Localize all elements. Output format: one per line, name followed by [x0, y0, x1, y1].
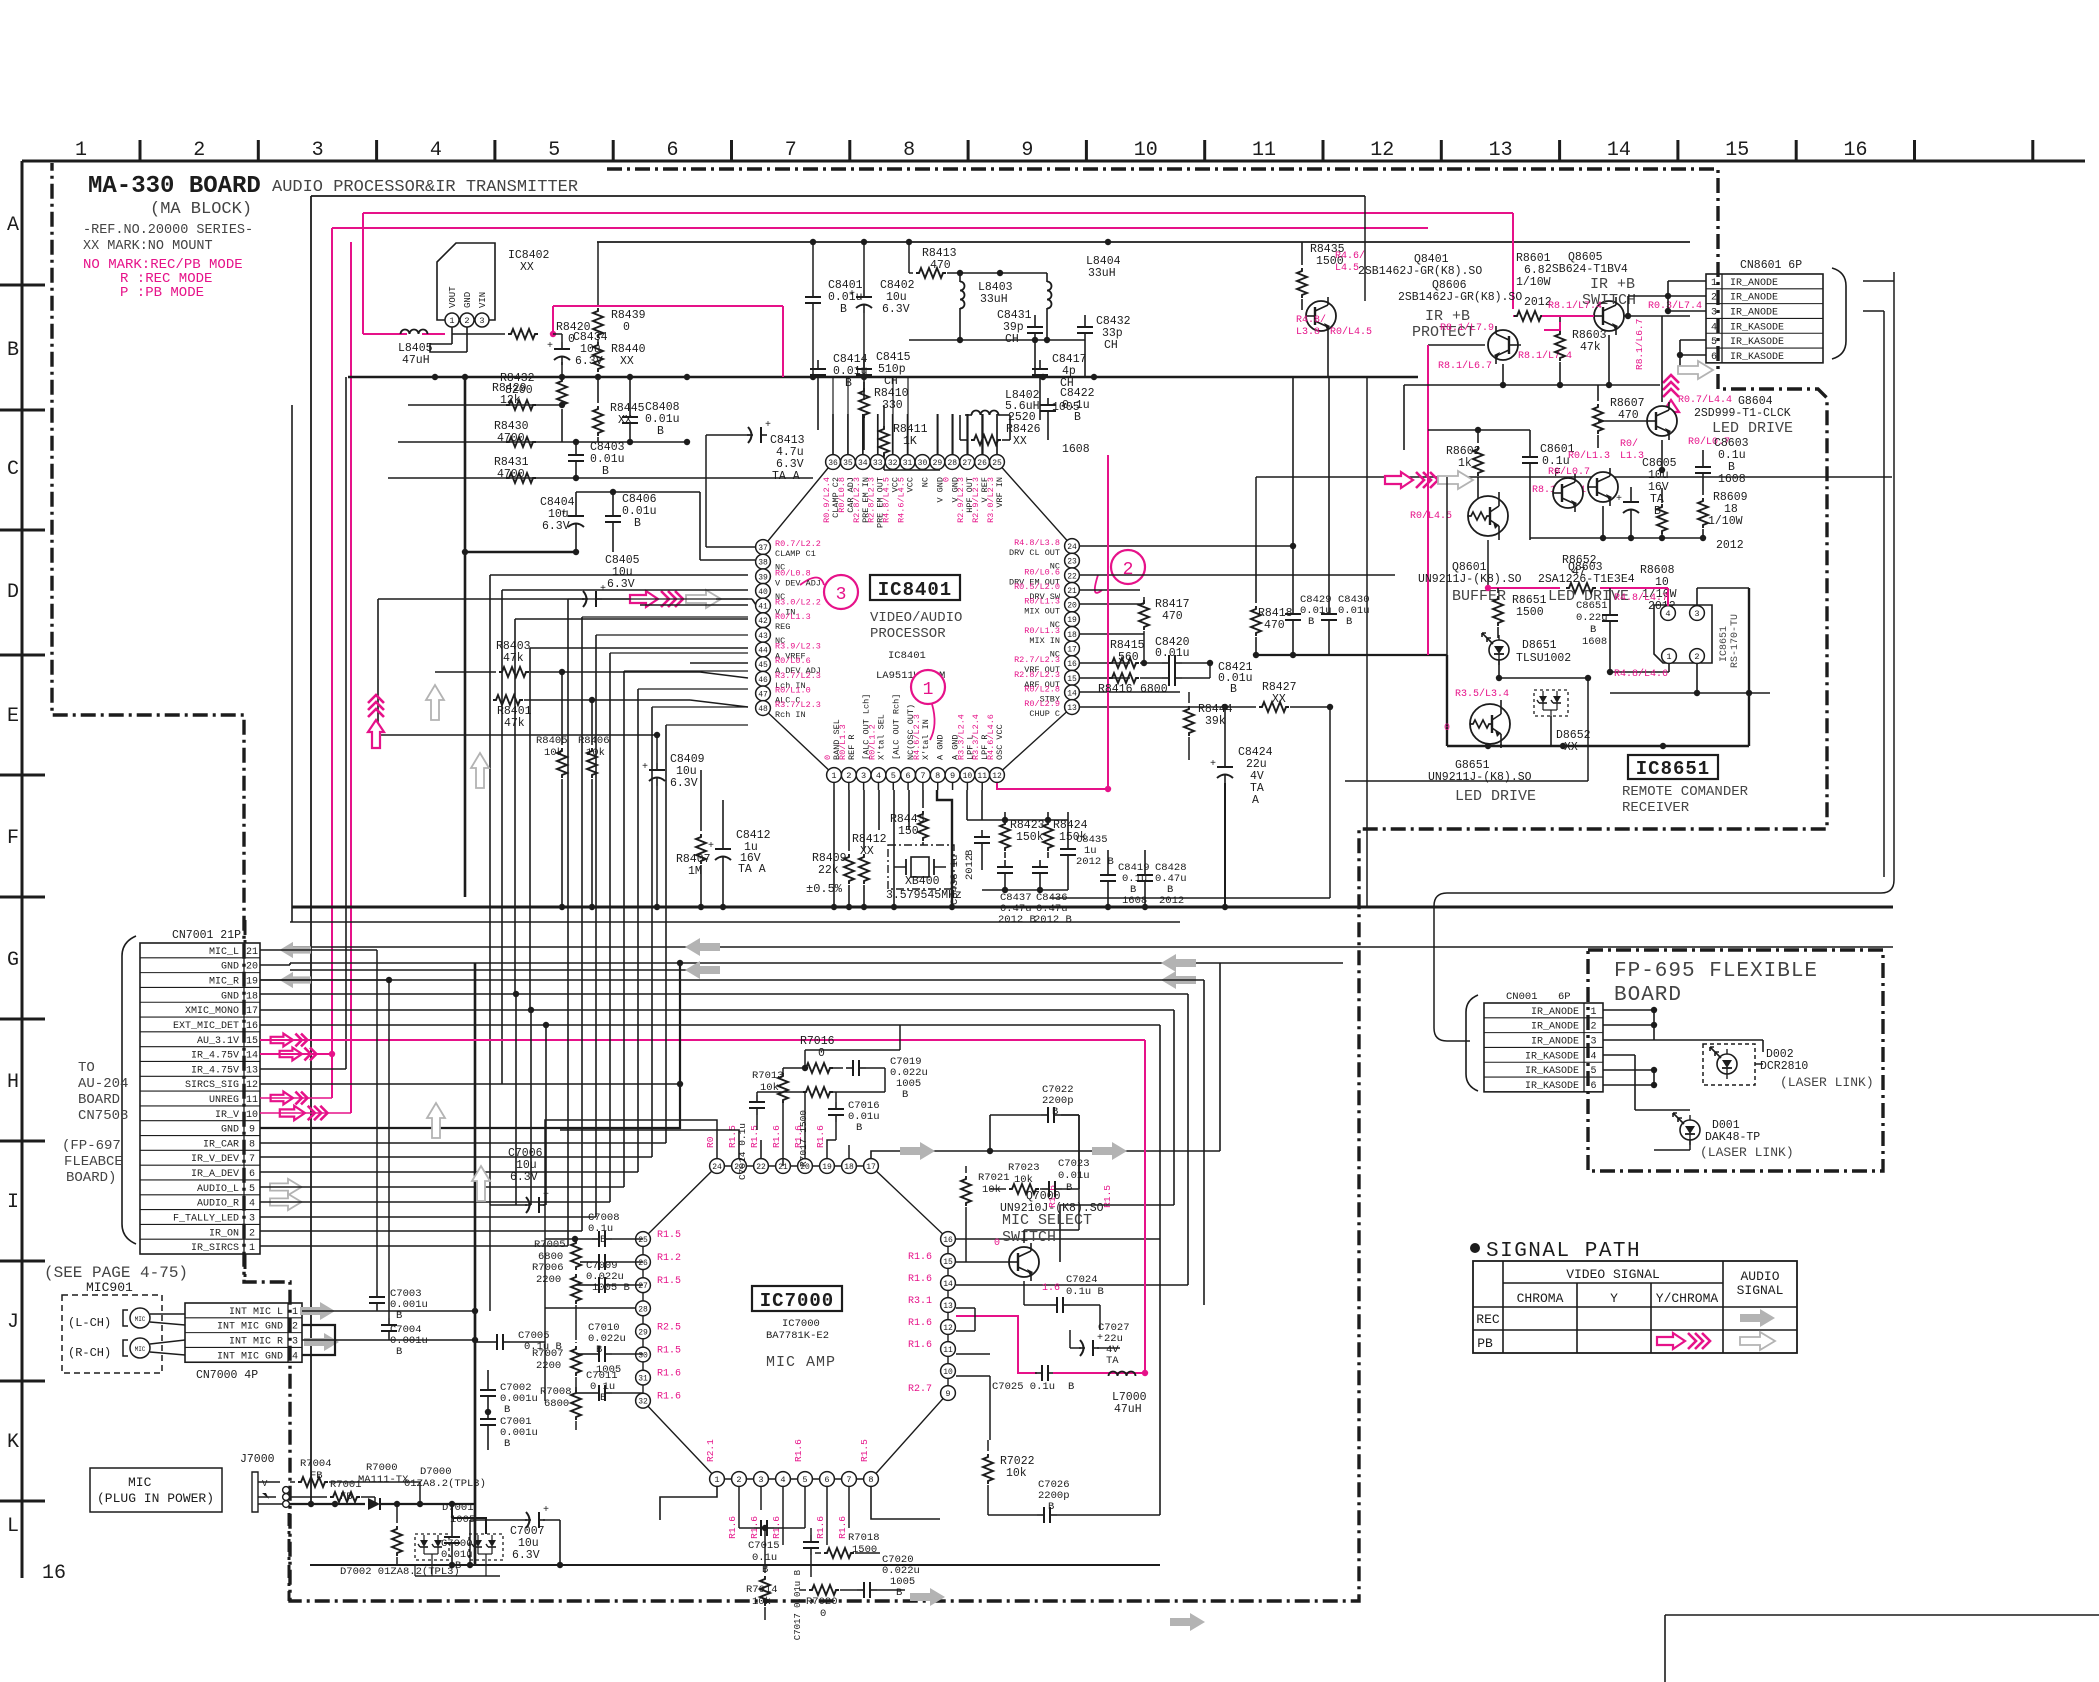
svg-text:INT MIC GND: INT MIC GND: [217, 1351, 283, 1362]
svg-text:30: 30: [918, 459, 928, 468]
wire buffer/led drive nets: [1446, 477, 1448, 538]
boxed label IC8651: [1628, 755, 1718, 779]
svg-text:R0/L4.5: R0/L4.5: [1330, 326, 1372, 338]
IC8401 pin 31: [900, 455, 915, 470]
svg-text:B: B: [600, 1392, 606, 1404]
ruler column tick: [1913, 140, 1916, 161]
capacitor C7001: [487, 1412, 489, 1419]
magenta wire IR_4.75V y1054: [260, 1053, 332, 1055]
svg-text:(PLUG IN POWER): (PLUG IN POWER): [97, 1491, 214, 1506]
svg-text:IC7000: IC7000: [760, 1290, 834, 1312]
svg-text:R1.2: R1.2: [657, 1253, 681, 1264]
op-amp IC8651 receiver chip: [1654, 605, 1712, 663]
wires IC8401 left pin stubs: [699, 492, 701, 560]
magenta wire UNREG y1098: [260, 1097, 332, 1099]
svg-text:22k: 22k: [818, 864, 839, 877]
capacitor C8408: [629, 410, 631, 417]
svg-text:GND: GND: [463, 292, 473, 308]
svg-text:DCR2810: DCR2810: [1760, 1060, 1808, 1073]
svg-text:R4.8/L4.6: R4.8/L4.6: [1614, 668, 1668, 680]
capacitor C8437: [1004, 860, 1006, 867]
svg-text:SWITCH: SWITCH: [1002, 1229, 1056, 1246]
svg-text:R1.6: R1.6: [908, 1252, 932, 1263]
svg-text:21: 21: [246, 947, 258, 958]
svg-text:47k: 47k: [504, 717, 525, 730]
svg-text:PB: PB: [1477, 1336, 1493, 1351]
svg-text:B: B: [1048, 1501, 1054, 1513]
svg-text:28: 28: [947, 459, 957, 468]
svg-text:R0: R0: [705, 1136, 716, 1148]
svg-text:INT MIC L: INT MIC L: [229, 1307, 283, 1318]
IC7000 pin 4: [776, 1472, 791, 1487]
svg-text:10k: 10k: [982, 1184, 1001, 1196]
resistor R7022: [983, 1454, 993, 1484]
svg-text:1608: 1608: [1718, 473, 1746, 486]
svg-text:IC8401: IC8401: [878, 579, 952, 601]
svg-text:6.3V: 6.3V: [607, 578, 635, 591]
svg-text:MIC: MIC: [128, 1475, 152, 1490]
wire left bus into area: [1345, 654, 1447, 656]
svg-text:22: 22: [756, 1163, 766, 1172]
ruler row tick: [0, 1140, 45, 1143]
resistor R8430: [506, 437, 536, 447]
svg-text:25: 25: [992, 459, 1002, 468]
regulator IC8402 body: [437, 243, 495, 320]
wire magenta vertical x351: [350, 242, 352, 1113]
svg-text:R1.5: R1.5: [657, 1230, 681, 1241]
wires IC8401 right pin stubs: [1080, 545, 1293, 547]
svg-text:C7023: C7023: [1058, 1158, 1090, 1170]
wires top cluster: [757, 1091, 795, 1093]
zener pair D7002b: [469, 1534, 503, 1560]
capacitor C8603: [1702, 460, 1704, 467]
svg-text:A: A: [7, 214, 19, 237]
wire pin10/11 nets: [967, 819, 1068, 821]
svg-text:REF R: REF R: [847, 734, 857, 760]
svg-text:IR_ANODE: IR_ANODE: [1531, 1007, 1579, 1018]
svg-text:3: 3: [1711, 308, 1717, 319]
magenta wire to L7000: [1053, 1372, 1145, 1374]
capacitor C8403: [575, 448, 577, 455]
IC7000 pin 12: [941, 1320, 956, 1335]
capacitor C8435: [1067, 842, 1069, 849]
crystal XB400: [888, 845, 954, 889]
IC7000 pin 29: [636, 1324, 651, 1339]
svg-text:2: 2: [292, 1322, 298, 1333]
svg-text:17: 17: [1067, 645, 1077, 654]
return buses under IC8401: [290, 921, 1180, 923]
svg-text:470: 470: [930, 259, 951, 272]
IC8401 pin 21: [1065, 583, 1080, 598]
svg-text:R3.3/L2.4: R3.3/L2.4: [956, 714, 966, 760]
svg-text:MIC_R: MIC_R: [209, 977, 239, 988]
IC8401 pin 11: [975, 768, 990, 783]
svg-text:UN9211J-(K8).SO: UN9211J-(K8).SO: [1418, 573, 1522, 586]
svg-text:V DEV ADJ: V DEV ADJ: [775, 578, 821, 588]
IC7000 pin 32: [636, 1393, 651, 1408]
resistor R8435: [1297, 268, 1307, 298]
svg-text:3: 3: [312, 139, 324, 162]
gray arrows at MIC rows: [280, 942, 312, 958]
wire GND row 9: [260, 963, 680, 1128]
svg-text:IR_ON: IR_ON: [209, 1228, 239, 1239]
capacitor C8601: [1529, 450, 1531, 457]
ruler column tick: [1440, 140, 1443, 161]
IC8401 pin 1: [827, 768, 842, 783]
svg-text:L: L: [7, 1515, 19, 1538]
gray up arrow x436 low: [427, 1103, 445, 1138]
svg-text:3: 3: [479, 316, 484, 326]
resistor R7023: [1009, 1184, 1039, 1194]
svg-text:46: 46: [758, 676, 768, 685]
op-amp IC8401 chip outline: [763, 462, 1072, 775]
resistor R7021: [961, 1176, 971, 1206]
svg-text:R8.1/L6.7: R8.1/L6.7: [1438, 360, 1492, 372]
svg-text:+: +: [708, 841, 714, 852]
svg-text:MIX OUT: MIX OUT: [1024, 607, 1060, 617]
svg-text:150k: 150k: [1016, 831, 1044, 844]
svg-text:28: 28: [638, 1305, 648, 1314]
capacitor C8424: [1224, 760, 1226, 767]
svg-text:J: J: [7, 1311, 19, 1334]
svg-text:+: +: [1616, 494, 1622, 505]
magenta circled 2: [1111, 550, 1145, 584]
svg-text:CN7000 4P: CN7000 4P: [196, 1369, 258, 1382]
svg-text:R7000: R7000: [366, 1462, 398, 1474]
svg-text:(LASER LINK): (LASER LINK): [1700, 1145, 1794, 1160]
svg-text:17: 17: [246, 1006, 258, 1017]
svg-text:12: 12: [1370, 139, 1394, 162]
wire Q8401 collector: [1327, 335, 1329, 377]
svg-text:R1.6: R1.6: [657, 1369, 681, 1380]
svg-text:1005: 1005: [896, 1078, 921, 1090]
svg-text:CN7001 21P: CN7001 21P: [172, 929, 241, 942]
gray arrow bottom C7026: [910, 1588, 945, 1606]
ruler column tick: [1322, 140, 1325, 161]
magenta circled 3: [824, 575, 858, 609]
IC7000 pin 22: [754, 1159, 769, 1174]
resistor R8407: [696, 834, 706, 864]
svg-text:R0.7/L4.4: R0.7/L4.4: [1678, 394, 1732, 406]
svg-text:1608: 1608: [1062, 443, 1090, 456]
capacitor C7014: [756, 1095, 758, 1102]
capacitor C8422: [1047, 398, 1049, 405]
svg-text:REG: REG: [775, 622, 790, 632]
capacitor C8405 on y599: [378, 598, 584, 600]
IC8401 pin 39: [756, 569, 771, 584]
svg-text:36: 36: [828, 459, 838, 468]
svg-text:4: 4: [1590, 1051, 1596, 1062]
svg-text:0: 0: [823, 755, 833, 760]
svg-text:3: 3: [292, 1337, 298, 1348]
ruler column tick: [257, 140, 260, 161]
svg-text:13: 13: [1489, 139, 1513, 162]
wire bus y442 R8430: [398, 441, 687, 443]
magenta path pin13 R3.1: [956, 1316, 1037, 1373]
svg-text:13: 13: [1067, 704, 1077, 713]
svg-text:33: 33: [873, 459, 883, 468]
svg-text:6.3V: 6.3V: [670, 777, 698, 790]
wire bus y405 R8429: [408, 404, 562, 406]
svg-text:B: B: [1590, 624, 1596, 636]
svg-text:DRV CL OUT: DRV CL OUT: [1009, 548, 1060, 558]
svg-text:IR_ANODE: IR_ANODE: [1730, 278, 1778, 289]
svg-text:R7014: R7014: [746, 1584, 778, 1596]
resistor R7006: [571, 1274, 581, 1304]
svg-text:R3.0/L2.2: R3.0/L2.2: [775, 598, 821, 608]
svg-text:INT MIC R: INT MIC R: [229, 1337, 283, 1348]
resistor R7001 FB: [330, 1492, 360, 1502]
gray arrow into V IN: [686, 590, 721, 608]
IC8401 pin 24: [1065, 539, 1080, 554]
svg-text:RECEIVER: RECEIVER: [1622, 800, 1690, 816]
svg-text:R0/L1.3: R0/L1.3: [775, 612, 811, 622]
wire x378 vertical: [377, 599, 379, 735]
svg-text:R2.9/L2.3: R2.9/L2.3: [956, 477, 966, 523]
svg-text:B: B: [964, 850, 976, 856]
svg-text:IC8401: IC8401: [888, 650, 926, 662]
svg-text:B: B: [504, 1404, 510, 1416]
svg-text:±0.5%: ±0.5%: [806, 882, 843, 896]
svg-text:IR_ANODE: IR_ANODE: [1531, 1037, 1579, 1048]
svg-text:2SB624-T1BV4: 2SB624-T1BV4: [1545, 263, 1628, 276]
svg-text:6.3V: 6.3V: [882, 303, 910, 316]
svg-text:R1.6: R1.6: [908, 1340, 932, 1351]
ruler column tick: [967, 140, 970, 161]
magenta up arrow near CN8601: [1663, 400, 1679, 428]
ruler row tick: [0, 896, 45, 899]
magenta wire y588: [1488, 587, 1560, 589]
wire C8413 electrolytic: [706, 434, 750, 436]
svg-text:1/10W: 1/10W: [1708, 515, 1743, 528]
resistor R8424: [1043, 821, 1053, 851]
svg-text:2: 2: [736, 1475, 741, 1485]
dash-dot stub above CN7001: [244, 920, 247, 943]
svg-text:R7023: R7023: [1008, 1162, 1040, 1174]
wire D8651 to Q8651: [1498, 660, 1500, 678]
capacitor C8419: [1107, 868, 1109, 875]
svg-text:R8405: R8405: [536, 735, 568, 747]
svg-text:6: 6: [906, 771, 911, 781]
svg-text:R4.6/L2.3: R4.6/L2.3: [912, 714, 922, 760]
capacitor C7007: [525, 1519, 531, 1521]
capacitor C7022: [1041, 1114, 1048, 1116]
svg-text:CHUP C: CHUP C: [1029, 709, 1060, 719]
wire x1160 down: [1159, 1239, 1161, 1515]
svg-text:R0/L1.2: R0/L1.2: [867, 724, 877, 760]
svg-text:IR_4.75V: IR_4.75V: [191, 1051, 239, 1062]
svg-text:B: B: [902, 1089, 908, 1101]
svg-text:6: 6: [1590, 1081, 1596, 1092]
svg-text:2: 2: [846, 771, 851, 781]
svg-text:38: 38: [758, 559, 768, 568]
svg-text:6.3V: 6.3V: [575, 355, 603, 368]
svg-text:R0/: R0/: [1620, 438, 1638, 450]
magenta vertical x1145 down: [1144, 1040, 1146, 1373]
IC8402 pin 1: [445, 313, 459, 327]
svg-text:B: B: [596, 1344, 602, 1356]
svg-text:AU-204: AU-204: [78, 1076, 128, 1092]
svg-text:32: 32: [638, 1398, 648, 1407]
svg-text:TA: TA: [1106, 1355, 1119, 1367]
svg-text:18: 18: [246, 991, 258, 1002]
svg-text:R7006: R7006: [532, 1262, 564, 1274]
svg-text:IC8651: IC8651: [1719, 626, 1730, 662]
svg-text:CN001: CN001: [1506, 991, 1538, 1003]
wire vertical x465 thick: [464, 377, 467, 897]
svg-text:R2.8/L2.3: R2.8/L2.3: [852, 477, 862, 523]
IC8401 pin 16: [1065, 656, 1080, 671]
svg-text:R0/L2.8: R0/L2.8: [1024, 684, 1060, 694]
svg-text:VIDEO/AUDIO: VIDEO/AUDIO: [870, 610, 962, 626]
svg-text:R1.6: R1.6: [815, 1516, 826, 1539]
resistor R7013: [778, 1073, 788, 1103]
svg-text:XX: XX: [860, 845, 874, 858]
IC8401 pin 46: [756, 671, 771, 686]
svg-text:R0/L1.3: R0/L1.3: [1024, 597, 1060, 607]
svg-text:4: 4: [1665, 609, 1670, 619]
ruler column tick: [1558, 140, 1561, 161]
IC8401 pin 45: [756, 657, 771, 672]
svg-text:CH: CH: [1104, 339, 1118, 352]
svg-text:8: 8: [249, 1139, 255, 1150]
svg-text:D7001: D7001: [442, 1502, 474, 1514]
svg-text:MIC: MIC: [135, 1316, 146, 1323]
svg-text:R1.6: R1.6: [657, 1392, 681, 1403]
svg-text:R0/L0.7: R0/L0.7: [1548, 466, 1590, 478]
wire pre-emphasis net: [909, 339, 1085, 341]
transistor Q8651 LED DRIVE: [1470, 704, 1510, 744]
svg-text:42: 42: [758, 617, 768, 626]
capacitor C7015: [754, 1527, 761, 1529]
svg-text:R3.7/L2.3: R3.7/L2.3: [775, 671, 821, 681]
svg-text:9: 9: [249, 1125, 255, 1136]
svg-text:1608: 1608: [1582, 636, 1607, 648]
wire C8404 net: [576, 491, 613, 493]
svg-text:MIC901: MIC901: [86, 1280, 133, 1295]
svg-text:PROCESSOR: PROCESSOR: [870, 626, 946, 642]
svg-text:10k: 10k: [544, 747, 563, 759]
magenta arrow into V IN: [630, 591, 658, 607]
capacitor C7003: [376, 1290, 378, 1297]
resistor R7017: [803, 1087, 833, 1097]
vertical x1749: [1748, 588, 1750, 746]
svg-text:C7017 0.01u B: C7017 0.01u B: [793, 1569, 803, 1640]
transistor Q8602 driver: [1553, 478, 1583, 508]
capacitor C8430: [1328, 607, 1330, 614]
bracket for CN7001: [122, 936, 136, 1244]
svg-text:6P: 6P: [1558, 991, 1571, 1003]
IC8401 boxed designator: [870, 575, 960, 600]
svg-text:2012 B: 2012 B: [998, 914, 1036, 926]
REC audio arrow: [1740, 1309, 1775, 1327]
svg-text:CN7503: CN7503: [78, 1108, 128, 1124]
PB video magenta arrow: [1657, 1333, 1685, 1349]
svg-text:C7024: C7024: [1066, 1274, 1098, 1286]
wire zener bottoms: [415, 1575, 500, 1577]
capacitor C7008: [592, 1238, 599, 1240]
IC8401 pin 3: [856, 768, 871, 783]
svg-text:470: 470: [1618, 409, 1639, 422]
IC8401 pin 43: [756, 627, 771, 642]
nested right wires into IC7000: [1159, 1025, 1161, 1239]
svg-text:7: 7: [846, 1475, 851, 1485]
svg-text:R0/L4.5: R0/L4.5: [1410, 510, 1452, 522]
svg-text:LED DRIVE: LED DRIVE: [1712, 420, 1793, 437]
capacitor C8651: [1609, 608, 1611, 615]
svg-text:2200: 2200: [536, 1360, 561, 1372]
svg-text:R1.6: R1.6: [727, 1516, 738, 1539]
gray arrows pin17 line: [900, 1142, 935, 1160]
resistor R8652: [1566, 583, 1596, 593]
svg-text:2SB1462J-GR(K8).SO: 2SB1462J-GR(K8).SO: [1358, 265, 1482, 278]
svg-text:B: B: [1346, 616, 1352, 628]
wire CN8601 right vertical: [1893, 272, 1895, 880]
gray up arrow x481 low: [472, 1166, 490, 1201]
svg-text:R0/L1.0: R0/L1.0: [775, 685, 811, 695]
svg-text:R2.7: R2.7: [908, 1384, 932, 1395]
capacitor C7019: [846, 1067, 853, 1069]
svg-text:IR_V: IR_V: [215, 1110, 239, 1121]
IC8401 pin 48: [756, 701, 771, 716]
IC8401 pin 14: [1065, 685, 1080, 700]
magenta up arrow x376: [368, 720, 384, 748]
magenta circled 1: [911, 670, 945, 704]
resistor R8405: [557, 748, 567, 778]
ruler column tick: [1203, 140, 1206, 161]
microphone unit MIC901 dashed box: [62, 1295, 162, 1373]
svg-text:35: 35: [843, 459, 853, 468]
capacitor C8429: [1292, 607, 1294, 614]
svg-text:C8651: C8651: [1576, 600, 1608, 612]
svg-text:R2.5: R2.5: [657, 1322, 681, 1333]
svg-text:R7018: R7018: [848, 1532, 880, 1544]
svg-text:AUDIO: AUDIO: [1740, 1269, 1779, 1284]
svg-text:1/10W: 1/10W: [1516, 276, 1551, 289]
svg-text:B: B: [600, 1234, 606, 1246]
svg-text:19: 19: [246, 977, 258, 988]
svg-text:17: 17: [866, 1163, 876, 1172]
mic capsule L: [130, 1308, 150, 1328]
svg-text:11: 11: [977, 772, 987, 781]
inductor L8402: [972, 411, 999, 416]
wire magenta bus y213: [363, 212, 1513, 214]
svg-text:R2.9/L2.3: R2.9/L2.3: [971, 477, 981, 523]
capacitor C8417: [1039, 362, 1041, 369]
svg-text:X'tal IN: X'tal IN: [921, 719, 931, 760]
wire solid box top y196: [311, 195, 1365, 197]
IC8401 pin 17: [1065, 641, 1080, 656]
IC7000 pin 26: [636, 1255, 651, 1270]
svg-text:BA7781K-E2: BA7781K-E2: [766, 1330, 829, 1342]
led D8651: [1489, 640, 1509, 660]
capacitor C7027: [1079, 1347, 1085, 1349]
capacitor C8415: [863, 362, 865, 369]
svg-text:10k: 10k: [752, 1596, 771, 1608]
svg-text:XB400: XB400: [905, 875, 940, 888]
svg-text:1k: 1k: [1458, 457, 1472, 470]
connector CN7000 4P: [185, 1303, 302, 1362]
label MIC PLUG IN POWER box: [90, 1468, 222, 1512]
svg-text:45: 45: [758, 661, 768, 670]
capacitor C7000: [451, 1530, 453, 1537]
svg-text:+: +: [543, 1190, 549, 1201]
wire x1330 vertical: [1329, 707, 1331, 898]
resistor R8417: [1139, 600, 1149, 630]
svg-text:INT MIC GND: INT MIC GND: [217, 1322, 283, 1333]
IC7000 pin 16: [941, 1232, 956, 1247]
svg-text:0.1u B: 0.1u B: [1066, 1286, 1104, 1298]
